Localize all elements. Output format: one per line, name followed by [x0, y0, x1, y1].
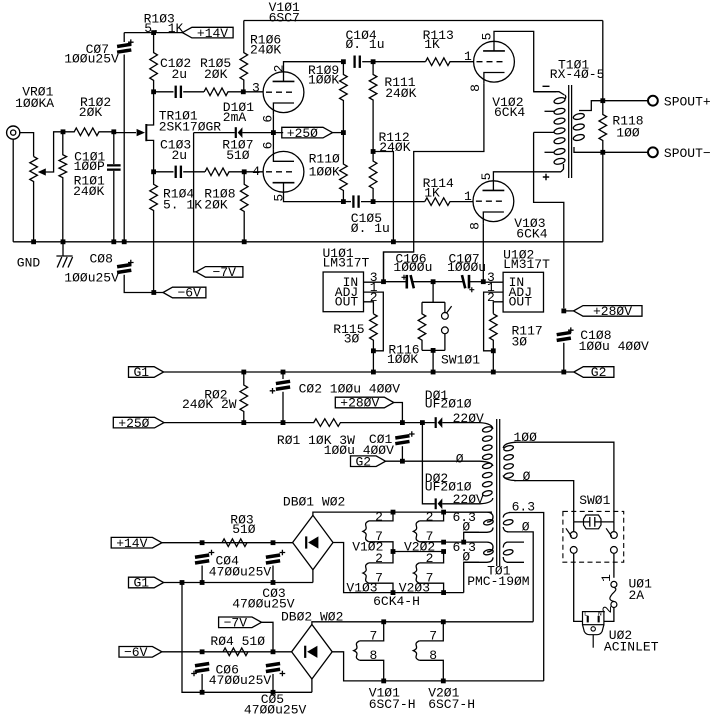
- label R116: [388, 343, 419, 358]
- label R116 value 100K: [387, 352, 418, 367]
- label C05 value 4700u25V: [244, 702, 307, 715]
- heater pin 7 V201: [429, 629, 437, 644]
- tube V103 6CK4: [473, 181, 514, 223]
- capacitor C107 electrolytic: [461, 275, 475, 292]
- net flag G1 bottom: [129, 576, 164, 591]
- wire C107 left lead: [433, 281, 463, 283]
- label heater V201 type: [428, 697, 475, 712]
- svg-text:L: L: [584, 610, 588, 617]
- svg-text:6CK4-H: 6CK4-H: [373, 594, 420, 609]
- label U02: [609, 628, 632, 643]
- svg-text:6SC7-H: 6SC7-H: [428, 697, 475, 712]
- resistor R111: [369, 62, 377, 152]
- svg-text:1ØØØu: 1ØØØu: [393, 260, 432, 275]
- label 100: [514, 430, 538, 445]
- wire C02 top lead: [282, 372, 284, 379]
- node C03 G1: [271, 580, 276, 585]
- label R02 value 240K 2W: [182, 397, 237, 412]
- resistor R114: [425, 198, 473, 206]
- wire R116 mid riser: [432, 282, 434, 303]
- AC inlet U02: [583, 610, 604, 647]
- label R112 value 240K: [379, 140, 410, 155]
- VR01 wiper arrow: [38, 132, 61, 176]
- net flag G2 bottom: [351, 454, 386, 469]
- heater filament V102: [363, 521, 369, 542]
- svg-text:3Ø: 3Ø: [344, 332, 360, 347]
- label C01: [369, 432, 393, 447]
- label T01 winding 220V top: [453, 411, 484, 426]
- node C05 bottom rail: [271, 690, 276, 695]
- wire V101a cathode lead: [272, 114, 274, 132]
- IC U102 box: [503, 272, 543, 312]
- node C01 top: [400, 420, 405, 425]
- svg-text:8: 8: [429, 648, 437, 663]
- switch SW101: [442, 302, 452, 350]
- label R109: [308, 63, 339, 78]
- wire R117 to G bus: [492, 351, 494, 372]
- svg-text:1ØØKA: 1ØØKA: [15, 96, 54, 111]
- transformer T101 polarity minus: [543, 85, 550, 87]
- svg-text:2: 2: [600, 606, 615, 614]
- label R109 value 100K: [308, 72, 339, 87]
- svg-text:OUT: OUT: [509, 295, 533, 310]
- label R113 value 1K: [424, 37, 440, 52]
- wire DB02 right vertex drop: [332, 652, 544, 681]
- node heater V203 bottom: [441, 590, 446, 595]
- wire right 6.3 lead: [509, 513, 544, 681]
- capacitor C103: [175, 166, 183, 178]
- heater V101 pin7: [360, 622, 384, 641]
- node C06 top: [200, 649, 205, 654]
- svg-text:OUT: OUT: [335, 295, 359, 310]
- svg-text:2A: 2A: [629, 588, 645, 603]
- capacitor C106 electrolytic: [402, 275, 416, 289]
- heater V102 pin2: [369, 512, 393, 521]
- label C08 value 100u25V: [64, 271, 119, 286]
- IC U101 box: [323, 272, 363, 312]
- node R104 -6V junction: [151, 290, 156, 295]
- node R102-C101 junction: [111, 129, 116, 134]
- wire secondary top lead: [579, 101, 603, 111]
- wire U102 ADJ pin: [484, 292, 504, 351]
- svg-text:ACINLET: ACINLET: [604, 640, 659, 655]
- bridge DB02 diamond: [292, 625, 333, 680]
- svg-text:5. 1K: 5. 1K: [163, 197, 202, 212]
- label R103 value 5.1K: [144, 21, 183, 36]
- label C107 value 1000u: [447, 260, 486, 275]
- label C103: [160, 138, 191, 153]
- node C101 ground: [111, 239, 116, 244]
- heater pin 7 V103: [375, 570, 383, 585]
- pin 6 label upper: [261, 115, 276, 123]
- heater pin 8 V101: [370, 648, 378, 663]
- label R03 value 510: [232, 522, 256, 537]
- label VR01 value 100KA: [15, 96, 54, 111]
- wire C06 bottom: [201, 674, 203, 692]
- svg-text:SPOUT+: SPOUT+: [664, 95, 711, 110]
- transformer T101 secondary winding: [573, 113, 585, 142]
- svg-text:1ØØK: 1ØØK: [387, 352, 418, 367]
- node C07 ground: [122, 239, 127, 244]
- wire DB01 top vertex to heater bus: [313, 512, 492, 515]
- label TR101 type 2SK170GR: [159, 119, 222, 134]
- svg-text:1: 1: [464, 189, 472, 204]
- heater V202 pin2: [419, 512, 443, 521]
- label T01 winding 0 HV: [456, 452, 464, 467]
- wire C03 bottom: [272, 566, 274, 583]
- svg-text:Ø: Ø: [523, 469, 531, 484]
- label C03: [262, 586, 285, 601]
- transformer T01 heater winding 6.3V A: [444, 512, 494, 532]
- svg-text:2ØK: 2ØK: [204, 67, 228, 82]
- wire C108 bottom: [563, 343, 565, 372]
- label U101 type LM317T: [323, 255, 370, 270]
- svg-text:RX-4Ø-5: RX-4Ø-5: [550, 67, 605, 82]
- svg-text:24ØK 2W: 24ØK 2W: [182, 397, 237, 412]
- heater V201 pin8: [419, 660, 443, 681]
- wire C103 to R107: [183, 171, 205, 173]
- label R118 value 100: [616, 125, 640, 140]
- svg-text:6: 6: [261, 115, 276, 123]
- net flag G1 left: [129, 365, 164, 380]
- label R104 value 5.1K: [163, 197, 202, 212]
- node R109-R110 junction: [341, 130, 346, 135]
- heater filament V101: [354, 641, 360, 660]
- net flag -7V top: [196, 265, 243, 280]
- pin 6 label lower: [261, 142, 276, 150]
- transformer T01 unused winding: [503, 542, 524, 562]
- label R114 value 1K: [424, 186, 440, 201]
- label R118: [612, 113, 643, 128]
- wire gate lead: [114, 132, 136, 134]
- heater pin 7 V203: [426, 570, 434, 585]
- heater filament V201: [413, 641, 419, 660]
- label R107: [222, 138, 253, 153]
- capacitor C108 electrolytic: [556, 327, 573, 342]
- svg-text:Ø. 1u: Ø. 1u: [346, 37, 385, 52]
- svg-text:1: 1: [464, 49, 472, 64]
- svg-text:6SC7: 6SC7: [269, 10, 300, 25]
- label V101 type 6SC7: [269, 10, 300, 25]
- heater V203 pin7: [419, 583, 443, 592]
- svg-text:G2: G2: [591, 365, 607, 380]
- label C102 value 2u: [172, 67, 188, 82]
- label C06: [216, 662, 239, 677]
- heater V201 pin7: [419, 622, 443, 641]
- pin 8 label V103: [467, 222, 482, 230]
- transformer T101 core: [569, 85, 572, 178]
- svg-text:6SC7-H: 6SC7-H: [369, 697, 416, 712]
- label C108: [580, 328, 611, 343]
- label R04 value: [210, 634, 265, 649]
- wire R115 to G bus: [372, 351, 374, 372]
- svg-text:2u: 2u: [172, 148, 188, 163]
- label heater V203: [399, 581, 430, 596]
- label R107 value 510: [226, 148, 250, 163]
- diode D02: [436, 498, 443, 509]
- terminal SPOUT+: [648, 96, 658, 106]
- capacitor C07 electrolytic: [117, 39, 134, 54]
- fuse pin 2: [600, 606, 615, 614]
- wire U102 OUT pin: [493, 302, 503, 314]
- resistor R02: [240, 372, 248, 423]
- pin 3 label: [252, 80, 260, 95]
- node heater V103 bottom: [391, 590, 396, 595]
- svg-text:Ø: Ø: [462, 550, 470, 565]
- svg-text:2: 2: [426, 509, 434, 524]
- label R117 value 30: [512, 334, 528, 349]
- label SW01: [579, 493, 610, 508]
- node R115 bottom: [371, 348, 376, 353]
- svg-text:SPOUT−: SPOUT−: [664, 146, 711, 161]
- wire C106 left lead: [384, 281, 406, 283]
- label T01 type PMC-190M: [467, 574, 529, 589]
- svg-text:1ØØP: 1ØØP: [74, 159, 105, 174]
- potentiometer VR01: [30, 157, 38, 242]
- heater pin 7 V202: [426, 529, 434, 544]
- svg-text:1ØØu 4ØØV: 1ØØu 4ØØV: [579, 339, 649, 354]
- capacitor C02 electrolytic: [270, 380, 291, 394]
- svg-text:2u: 2u: [172, 67, 188, 82]
- node R112 top junction: [371, 149, 376, 154]
- label U02 type ACINLET: [604, 640, 659, 655]
- wire C103 line left: [154, 171, 174, 173]
- wire 100 lead: [514, 442, 614, 522]
- svg-text:DBØ1 WØ2: DBØ1 WØ2: [283, 494, 345, 509]
- pin 5 label V101b: [272, 194, 287, 202]
- svg-text:CØ8: CØ8: [90, 251, 113, 266]
- switch SW01 left pole: [566, 522, 583, 622]
- label C105 value 0.1u: [351, 221, 390, 236]
- node SPOUT+ junction: [600, 98, 605, 103]
- svg-text:Ø: Ø: [462, 520, 470, 535]
- node heater V102 top: [391, 510, 396, 515]
- svg-text:7: 7: [370, 629, 378, 644]
- wire -6V line: [162, 651, 292, 653]
- node heater V202 pin7: [441, 540, 446, 545]
- wire D01 to winding: [442, 422, 480, 424]
- wire D101 line: [194, 132, 235, 134]
- transformer T01 heater winding right 6.3V: [503, 513, 514, 532]
- wire ground symbol lead: [62, 242, 64, 256]
- wire secondary top to SPOUT+ terminal: [603, 100, 648, 102]
- U101 pin number 1: [370, 280, 378, 295]
- svg-text:24ØK: 24ØK: [73, 184, 104, 199]
- wire V101b plate lead: [284, 183, 344, 202]
- net flag G2 right: [574, 365, 614, 380]
- label R112: [379, 130, 410, 145]
- T101 primary center tap: [534, 131, 555, 133]
- node A junction: [61, 129, 66, 134]
- wire +280V stub: [564, 310, 574, 312]
- label R01 value: [277, 433, 355, 448]
- node C01 G2: [400, 459, 405, 464]
- wire R112 top jog: [373, 152, 393, 242]
- svg-text:LM317T: LM317T: [503, 257, 550, 272]
- svg-text:+25Ø: +25Ø: [287, 126, 318, 141]
- node R117 G bus: [491, 370, 496, 375]
- node C104 left: [341, 59, 346, 64]
- U101 pin name ADJ: [335, 285, 358, 300]
- svg-text:1: 1: [599, 574, 614, 582]
- node C106-C107 mid: [431, 279, 436, 284]
- label SW101: [441, 352, 480, 367]
- label 6.3 B left: [453, 540, 476, 555]
- label C04 value 4700u25V: [209, 565, 272, 580]
- U102 pin name IN: [509, 275, 525, 290]
- heater V101 pin8: [360, 660, 384, 681]
- resistor R106: [240, 21, 248, 92]
- pin 4 label: [252, 164, 260, 179]
- svg-text:2: 2: [271, 65, 286, 73]
- resistor R105: [204, 88, 243, 96]
- wire T101 primary top lead: [534, 92, 565, 95]
- wire V103 cathode: [482, 223, 484, 282]
- label C103 value 2u: [172, 148, 188, 163]
- node C03 top: [271, 540, 276, 545]
- node D01 junction: [420, 420, 425, 425]
- svg-text:1ØØK: 1ØØK: [308, 72, 339, 87]
- transformer T01 primary 100V winding: [503, 442, 516, 480]
- svg-text:SWØ1: SWØ1: [579, 493, 610, 508]
- resistor R117: [490, 314, 498, 351]
- transformer T101 primary winding: [553, 95, 565, 165]
- node winding A 0 / 6.3B: [461, 540, 466, 545]
- label 0 A left: [462, 520, 470, 535]
- label D02: [425, 471, 448, 486]
- label C06 value 4700u25V: [209, 673, 272, 688]
- wire V103 plate to T101: [493, 172, 561, 191]
- wire C07 bottom lead: [123, 55, 125, 242]
- wire G2 stub: [564, 371, 574, 373]
- svg-text:+14V: +14V: [116, 536, 147, 551]
- capacitor C05 electrolytic: [266, 662, 286, 677]
- svg-text:24ØK: 24ØK: [385, 86, 416, 101]
- resistor R01: [283, 419, 402, 427]
- resistor R102: [63, 128, 114, 136]
- label C107: [449, 252, 480, 267]
- label R105 value 20K: [204, 67, 228, 82]
- pin 8 label V102: [468, 84, 483, 92]
- capacitor C03 electrolytic: [266, 550, 286, 565]
- svg-text:G2: G2: [355, 454, 371, 469]
- label R102 value 20K: [79, 105, 103, 120]
- input jack J1: [7, 126, 20, 139]
- wire C04 bottom: [201, 566, 203, 583]
- label R103: [144, 11, 175, 26]
- label C02 value: [299, 382, 401, 397]
- svg-text:G1: G1: [133, 365, 149, 380]
- label R113: [423, 28, 454, 43]
- label 6.3 right: [512, 500, 535, 515]
- label GND: [17, 256, 41, 271]
- label C104 value 0.1u: [346, 37, 385, 52]
- label 6CK4-H: [373, 594, 420, 609]
- node R103 top: [151, 30, 156, 35]
- wire DB01 bottom vertex to G1: [312, 570, 314, 583]
- label R101: [74, 174, 105, 189]
- net flag +14V bottom: [111, 536, 162, 551]
- wire right 0 lead: [507, 532, 533, 622]
- svg-text:2: 2: [375, 551, 383, 566]
- label R02: [204, 387, 227, 402]
- wire C102 line left: [154, 91, 174, 93]
- node heater V201 bottom: [441, 679, 446, 684]
- transistor TR101 2SK170GR: [137, 92, 154, 172]
- heater pin 8 V201: [429, 648, 437, 663]
- svg-text:SW1Ø1: SW1Ø1: [441, 352, 480, 367]
- wire V102 cathode: [384, 84, 484, 282]
- node C104 right: [371, 59, 376, 64]
- net flag +280V bottom: [335, 396, 394, 411]
- label D101: [223, 100, 254, 115]
- node VR01 ground: [31, 239, 36, 244]
- node heater V101 top: [381, 619, 386, 624]
- label heater V103: [346, 581, 377, 596]
- node C06 bottom rail: [200, 690, 205, 695]
- label C101 value 100P: [74, 159, 105, 174]
- label T01: [487, 563, 511, 578]
- label C106: [395, 252, 426, 267]
- node C02 top: [281, 370, 286, 375]
- wire U101 IN pin: [364, 281, 384, 283]
- svg-text:LM317T: LM317T: [323, 255, 370, 270]
- wire +14V line: [162, 542, 293, 544]
- wire C01 bottom: [401, 446, 403, 461]
- svg-text:6.3: 6.3: [512, 500, 535, 515]
- svg-text:6: 6: [261, 142, 276, 150]
- heater filament V203: [413, 563, 419, 583]
- svg-text:2mA: 2mA: [223, 110, 247, 125]
- label heater V101 type: [369, 697, 416, 712]
- wire C07 top lead: [123, 33, 125, 42]
- label C01 value 100u 400V: [324, 443, 394, 458]
- heater V202 pin7: [419, 541, 443, 543]
- wire +250 to R-junction: [333, 132, 344, 134]
- wire C101 bottom lead: [113, 171, 115, 242]
- svg-text:7: 7: [429, 629, 437, 644]
- capacitor C06 electrolytic: [191, 662, 209, 677]
- U102 pin number 2: [487, 290, 495, 305]
- wire C05 bottom: [272, 674, 274, 692]
- label C03 value 4700u25V: [232, 596, 295, 611]
- wire C08 bottom to -6V: [124, 275, 163, 293]
- wire U101 OUT pin: [364, 302, 374, 314]
- heater V103 pin7: [369, 583, 393, 592]
- resistor R109: [340, 62, 348, 133]
- node R108 ground: [242, 239, 247, 244]
- node R117 bottom: [491, 348, 496, 353]
- resistor R101: [59, 132, 67, 242]
- node R116 bottom mid: [431, 348, 436, 353]
- svg-text:1ØØu25V: 1ØØu25V: [64, 51, 119, 66]
- node heater V202 top: [441, 510, 446, 515]
- tube V101 lower triode: [263, 150, 304, 192]
- svg-text:1K: 1K: [424, 186, 440, 201]
- label 6.3 A left: [453, 510, 476, 525]
- svg-text:−6V: −6V: [177, 286, 201, 301]
- svg-text:51Ø: 51Ø: [226, 148, 250, 163]
- label R111 value 240K: [385, 86, 416, 101]
- node C02 +250: [281, 420, 286, 425]
- net flag +250 top: [282, 126, 333, 141]
- T101 primary tap stub 1: [545, 110, 555, 112]
- svg-text:5. 1K: 5. 1K: [144, 21, 183, 36]
- label R110 value 100K: [309, 164, 340, 179]
- node R101 ground: [61, 239, 66, 244]
- U101 pin name OUT: [335, 295, 359, 310]
- label 0 right: [522, 519, 530, 534]
